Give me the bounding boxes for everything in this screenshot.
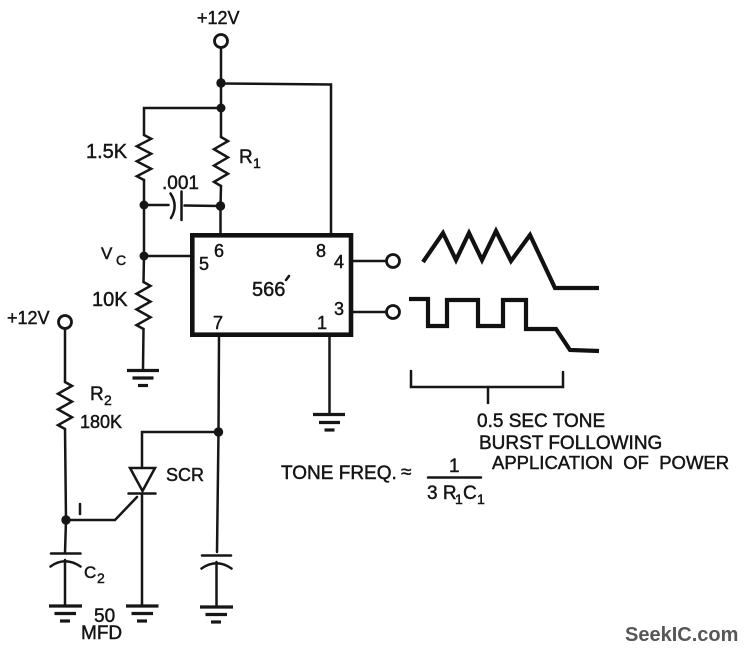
ground (pin 1) xyxy=(313,415,345,431)
svg-text:3: 3 xyxy=(334,299,344,319)
tick mark after 566 xyxy=(286,276,289,280)
svg-text:8: 8 xyxy=(316,241,326,261)
node E junction xyxy=(214,427,223,436)
wire: pin 3 to output terminal xyxy=(353,311,386,314)
wire: node VC to pin 5 xyxy=(144,255,191,258)
svg-text:MFD: MFD xyxy=(81,623,122,644)
gate node junction xyxy=(61,515,70,524)
svg-text:V: V xyxy=(101,244,113,263)
svg-text:1: 1 xyxy=(253,155,261,171)
bypass capacitor (pin 7) top plate xyxy=(202,554,231,557)
wire: R1 bottom to node D xyxy=(219,186,222,206)
wire: 10K bottom to ground xyxy=(142,329,145,369)
node D junction xyxy=(216,201,225,210)
svg-text:5: 5 xyxy=(199,254,209,274)
capacitor .001 left wire xyxy=(144,204,169,207)
ground (under 10K) xyxy=(127,371,159,386)
wire: node B left to 1.5K branch xyxy=(144,108,221,135)
wire: 1.5K bottom to node C xyxy=(143,180,146,205)
node B junction xyxy=(217,104,226,113)
svg-text:APPLICATION OF POWER: APPLICATION OF POWER xyxy=(492,452,729,473)
wire: pin 1 down to ground xyxy=(328,337,331,414)
resistor R2 xyxy=(58,382,72,429)
wire: node A to pin 8 (horizontal + vertical) xyxy=(221,84,331,234)
svg-text:SeekIC.com: SeekIC.com xyxy=(625,624,738,646)
wire: pin 4 to output terminal xyxy=(353,260,386,263)
bypass capacitor (pin 7) curved plate xyxy=(202,563,232,568)
output terminal (pin 4) xyxy=(387,255,400,268)
wire: node C down to node VC xyxy=(143,205,146,256)
svg-text:7: 7 xyxy=(213,313,223,333)
wire: node B down to R1 top xyxy=(220,108,223,137)
wire: node E down to bypass capacitor xyxy=(217,432,219,552)
svg-text:1: 1 xyxy=(455,491,463,507)
svg-text:0.5 SEC TONE: 0.5 SEC TONE xyxy=(477,411,605,432)
capacitor .001 straight plate xyxy=(180,192,183,221)
svg-text:2: 2 xyxy=(97,570,105,586)
svg-text:C: C xyxy=(463,483,477,504)
wire: node E left and down to SCR anode xyxy=(142,432,219,467)
svg-text:1: 1 xyxy=(449,456,460,477)
svg-text:1: 1 xyxy=(477,491,485,507)
SCR cathode bar xyxy=(129,492,156,495)
svg-text:3 R: 3 R xyxy=(427,483,457,504)
capacitor C2 curved plate xyxy=(51,561,81,566)
resistor 1.5K xyxy=(137,135,151,180)
wire: pin 7 down to node E xyxy=(217,337,220,432)
svg-text:SCR: SCR xyxy=(166,465,204,485)
svg-text:R: R xyxy=(239,147,253,168)
svg-text:1: 1 xyxy=(317,313,327,333)
node A junction xyxy=(216,78,225,87)
wire: SCR cathode to ground xyxy=(141,495,144,605)
svg-text:4: 4 xyxy=(334,252,344,272)
node VC junction xyxy=(140,252,149,261)
svg-text:C: C xyxy=(84,563,96,582)
resistor 10K xyxy=(137,282,151,329)
square waveform xyxy=(409,299,599,351)
wire: C2 to ground xyxy=(64,560,67,605)
svg-text:6: 6 xyxy=(214,241,224,261)
wire: node D down to pin 6 xyxy=(219,206,222,234)
capacitor .001 curved plate xyxy=(171,194,175,219)
capacitor C2 top plate xyxy=(51,552,81,555)
svg-text:10K: 10K xyxy=(92,289,128,311)
output terminal (pin 3) xyxy=(387,306,400,319)
svg-text:≈: ≈ xyxy=(401,462,411,483)
SCR gate lead xyxy=(66,497,137,520)
ground (under SCR) xyxy=(126,606,159,621)
+12V terminal (left) xyxy=(59,316,72,329)
SCR Q1 triangle xyxy=(130,468,155,491)
wire: top terminal down to node A xyxy=(220,48,223,84)
gate tick mark xyxy=(79,504,82,514)
ground (under bypass capacitor) xyxy=(200,607,233,622)
svg-text:C: C xyxy=(116,252,126,268)
svg-text:R: R xyxy=(90,384,104,405)
svg-text:+12V: +12V xyxy=(197,8,240,28)
svg-text:BURST FOLLOWING: BURST FOLLOWING xyxy=(479,433,662,454)
formula fraction bar xyxy=(428,476,481,479)
wire: bypass capacitor to ground xyxy=(215,562,218,606)
wire: gate node down to C2 xyxy=(65,520,66,553)
svg-text:180K: 180K xyxy=(80,412,122,432)
resistor R1 xyxy=(214,137,228,186)
capacitor .001 right wire xyxy=(185,204,221,207)
IC U1 566 body xyxy=(192,235,351,334)
+12V terminal (top) xyxy=(215,35,228,48)
wire: node VC down to 10K xyxy=(142,256,145,282)
svg-text:1.5K: 1.5K xyxy=(86,141,128,163)
svg-text:TONE FREQ.: TONE FREQ. xyxy=(281,463,397,484)
svg-text:+12V: +12V xyxy=(7,308,50,328)
wire: left terminal to R2 xyxy=(64,329,67,383)
wire: R2 bottom to gate node xyxy=(65,429,66,520)
ground (under C2) xyxy=(49,606,82,621)
brace under waveforms xyxy=(411,371,563,403)
wire: node A down to node B xyxy=(220,83,223,108)
node C junction xyxy=(140,201,149,210)
svg-text:2: 2 xyxy=(104,392,112,408)
svg-text:566: 566 xyxy=(252,279,285,301)
sawtooth waveform xyxy=(423,231,599,288)
